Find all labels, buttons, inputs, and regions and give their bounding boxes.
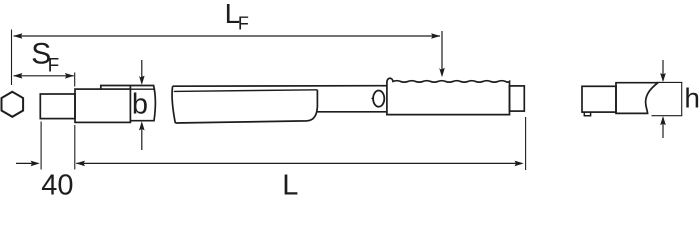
svg-text:F: F [48,55,60,76]
beam blade: top line to handle [173,85,387,88]
dimension line S_F [14,75,74,77]
dimension line L_F [14,35,441,37]
arrowhead h bottom (up) [660,116,666,125]
head top plate + b-section [101,86,156,121]
40 leader line left [16,162,33,164]
b-section inner line [130,88,154,90]
beam blade: inner top line [174,90,318,92]
hexagon (fastener) [2,92,24,117]
arrowhead L_F left [13,33,22,39]
handle end cap [510,86,525,111]
head block [75,89,130,122]
arrowhead 40 left (right-pointing) [31,161,40,167]
arrowhead L_F drop (down) [439,68,445,77]
arrowhead L left (left-pointing) [76,161,85,167]
handle grip [387,78,510,114]
svg-text:L: L [282,169,298,200]
beam blade: bottom and shoulder [175,90,317,123]
extension line left reference (fastener axis) [11,30,13,86]
arrowhead h top (down) [660,73,666,82]
b arrow bottom shaft [141,128,143,150]
b-section left stub [129,86,131,90]
detail: insert shank rectangle [582,86,616,112]
dimension line L [76,162,518,164]
svg-text:h: h [684,82,700,113]
h top tick [656,81,683,83]
detail: shank foot [584,112,590,116]
shaft bottom line [317,111,387,113]
L_F drop line to handle [441,31,443,70]
extension line 40 left [40,122,42,170]
h arrow top shaft [662,60,664,76]
detail: insert body with break edge [616,83,658,114]
extension line L right [525,117,527,170]
extension line S_F right [74,73,76,87]
arrowhead L_F right [431,33,440,39]
svg-text:40: 40 [41,170,73,200]
hole notch [371,97,374,99]
svg-text:F: F [238,14,249,34]
h bottom tick [652,115,683,117]
h arrow bottom shaft [662,122,664,138]
extension line 40 right / L left [74,125,76,170]
arrowhead L right (right-pointing) [515,161,524,167]
square drive tang [40,94,75,119]
h bracket vertical [681,82,683,115]
beam blade: left break edge [172,86,175,123]
arrowhead S_F left [13,73,22,79]
arrowhead b bottom (up) [139,121,145,130]
b arrow top shaft [141,60,143,78]
hole in beam [373,91,384,107]
arrowhead S_F right [65,73,74,79]
svg-text:b: b [132,89,148,121]
arrowhead b top (down) [139,76,145,85]
